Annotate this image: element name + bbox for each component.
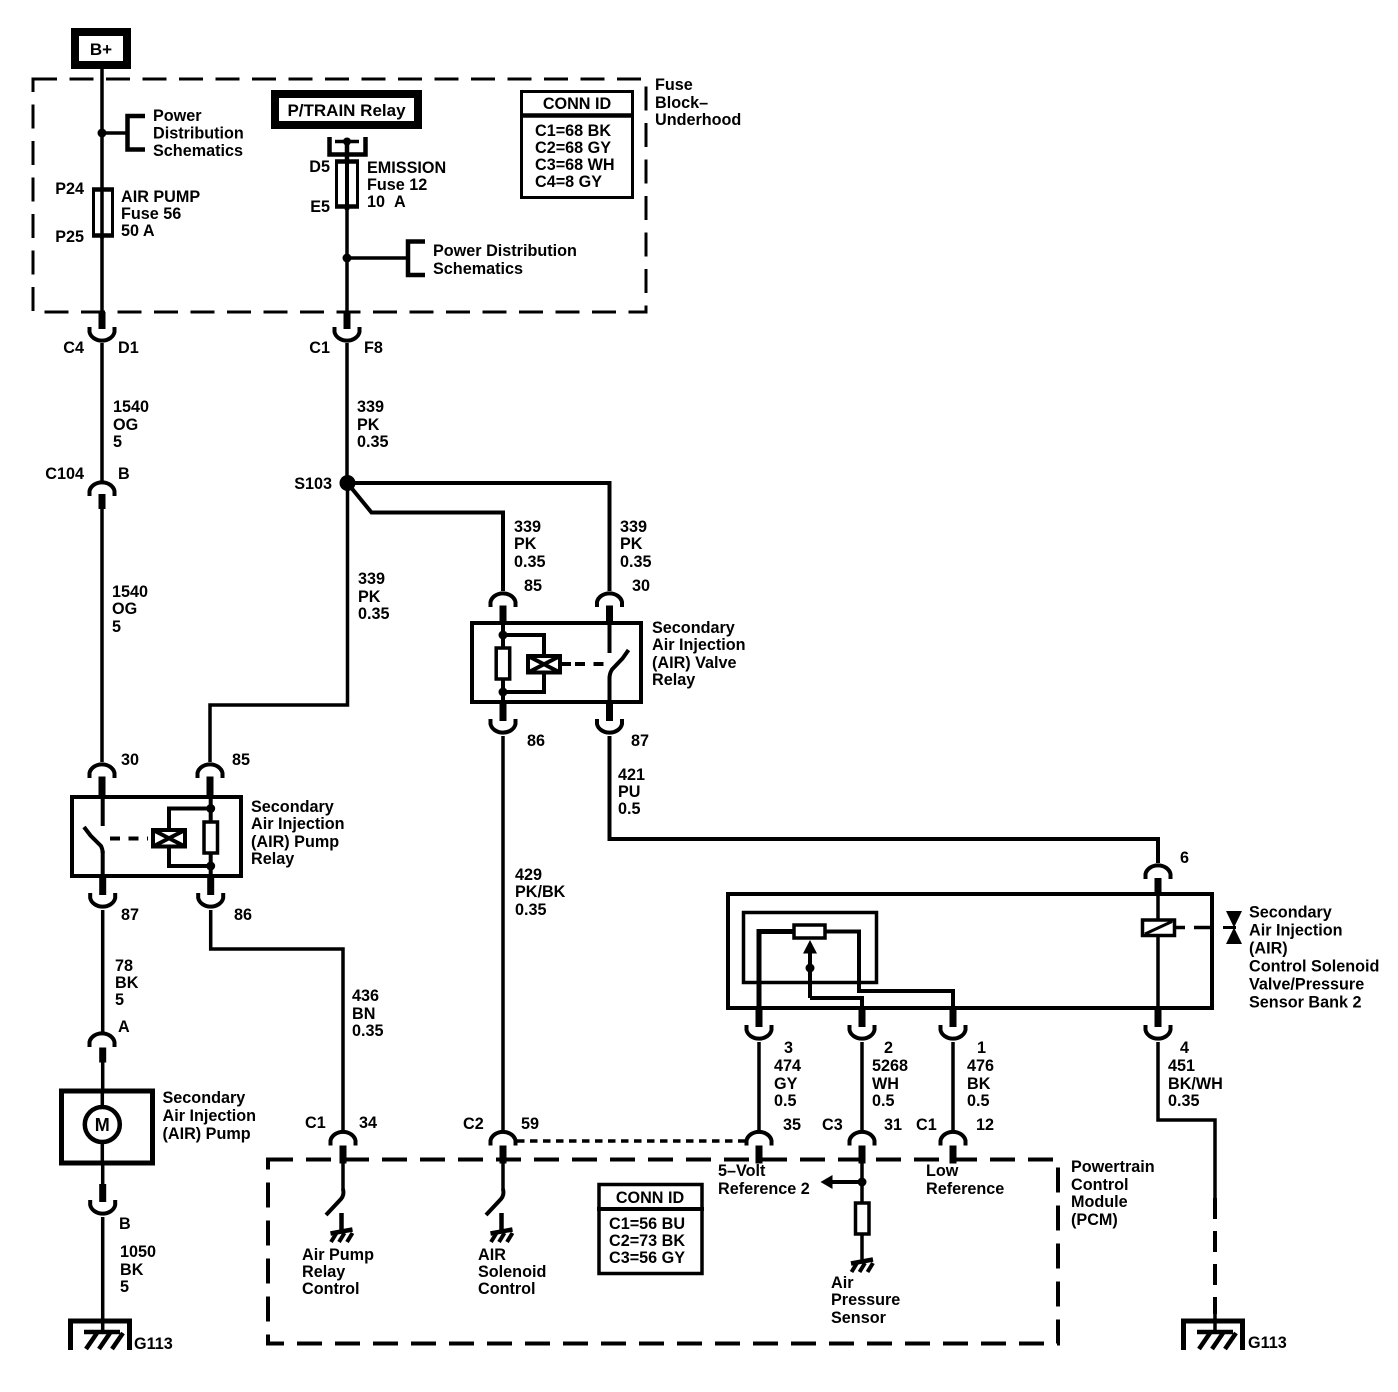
svg-text:PK: PK xyxy=(357,416,380,434)
connector pin 2 stub xyxy=(859,1009,866,1027)
svg-text:BN: BN xyxy=(352,1005,375,1023)
wire S103 diagonal branch to valve relay 85 xyxy=(349,485,503,591)
svg-text:(AIR) Valve: (AIR) Valve xyxy=(652,654,737,672)
svg-text:476: 476 xyxy=(967,1057,994,1075)
svg-text:339: 339 xyxy=(620,518,647,536)
svg-text:5: 5 xyxy=(113,433,122,451)
svg-text:PK: PK xyxy=(620,535,643,553)
svg-text:BK: BK xyxy=(967,1075,991,1093)
svg-text:Air Injection: Air Injection xyxy=(1249,922,1343,940)
svg-text:C2: C2 xyxy=(463,1115,484,1133)
svg-text:1050: 1050 xyxy=(120,1243,156,1261)
svg-text:429: 429 xyxy=(515,866,542,884)
svg-text:Relay: Relay xyxy=(652,671,695,689)
connector valve relay pin 86 stub xyxy=(500,703,507,721)
PCM dashed box xyxy=(268,1160,1058,1344)
svg-text:WH: WH xyxy=(872,1075,899,1093)
svg-text:87: 87 xyxy=(121,906,139,924)
connector PCM pin 31 xyxy=(850,1132,875,1146)
svg-text:30: 30 xyxy=(632,577,650,595)
air pressure sensor feed wire xyxy=(860,1160,864,1203)
solenoid feed wire from pin 6 xyxy=(1156,892,1160,921)
connector PCM pin 59 xyxy=(491,1132,516,1146)
pump relay coil bottom wire xyxy=(209,853,213,878)
svg-text:Sensor: Sensor xyxy=(831,1309,887,1327)
svg-text:(AIR): (AIR) xyxy=(1249,940,1288,958)
wire label 339 PK 0.35 right branch xyxy=(620,518,652,571)
svg-text:5: 5 xyxy=(115,991,124,1009)
wire 474 GY pin 3 to PCM 35 xyxy=(757,1042,761,1130)
connector C1 F8 xyxy=(335,327,360,341)
connector valve relay pin 86 xyxy=(491,719,516,733)
junction node power distribution tap xyxy=(98,129,107,138)
label Secondary Air Injection AIR Pump xyxy=(163,1089,257,1143)
svg-text:Power: Power xyxy=(153,107,202,125)
svg-text:34: 34 xyxy=(359,1114,377,1132)
svg-text:B: B xyxy=(119,1215,131,1233)
valve relay wire solenoid top loop xyxy=(503,635,544,655)
wire 436 BN pin 86 to PCM 34 xyxy=(211,910,343,1130)
svg-text:59: 59 xyxy=(521,1115,539,1133)
svg-text:C1: C1 xyxy=(916,1116,937,1134)
svg-text:0.35: 0.35 xyxy=(514,553,546,571)
svg-text:474: 474 xyxy=(774,1057,801,1075)
wire label 474 GY 0.5 xyxy=(774,1057,801,1110)
connector valve relay pin 87 stub xyxy=(606,703,613,721)
connector pump relay pin 30 xyxy=(90,764,115,778)
svg-text:339: 339 xyxy=(357,398,384,416)
AIR solenoid control driver wire xyxy=(501,1160,505,1190)
wire stub into ground G113 right xyxy=(1213,1310,1217,1332)
svg-text:Air Injection: Air Injection xyxy=(251,815,345,833)
connector valve relay pin 85 xyxy=(491,593,516,607)
connector PCM pin 12 stub xyxy=(950,1146,957,1164)
svg-text:CONN ID: CONN ID xyxy=(616,1189,685,1207)
svg-text:C3=56 GY: C3=56 GY xyxy=(609,1249,685,1267)
connector C4 D1 xyxy=(90,327,115,341)
wire label 339 PK 0.35 feed xyxy=(357,398,389,451)
svg-text:Valve/Pressure: Valve/Pressure xyxy=(1249,976,1364,994)
svg-text:5–Volt: 5–Volt xyxy=(718,1162,766,1180)
svg-text:5268: 5268 xyxy=(872,1057,908,1075)
svg-text:OG: OG xyxy=(112,600,137,618)
label Secondary Air Injection AIR Control Solenoid Valve Pressure Sensor Bank 2 xyxy=(1249,904,1379,1012)
wire 421 PU pin 87 to solenoid pin 6 xyxy=(610,736,1159,863)
connector B stub xyxy=(99,1184,106,1202)
svg-text:P25: P25 xyxy=(55,228,84,246)
wire 1540 OG C4 to C104 xyxy=(100,343,104,481)
wire S103 branch right to valve relay 30 xyxy=(347,483,610,591)
valve relay coil bottom wire xyxy=(501,679,505,704)
valve relay switch fixed contact from pin 30 xyxy=(608,621,612,653)
wire 1540 OG C104 to pump relay 30 xyxy=(100,507,104,762)
svg-text:PK/BK: PK/BK xyxy=(515,883,566,901)
junction node coil bottom valve relay xyxy=(499,688,508,697)
ground comb air pump relay control xyxy=(331,1230,353,1243)
svg-text:Relay: Relay xyxy=(302,1263,345,1281)
component box AIR control solenoid valve pressure sensor bank 2 xyxy=(728,894,1212,1008)
svg-text:87: 87 xyxy=(631,732,649,750)
svg-text:5: 5 xyxy=(112,618,121,636)
label Fuse Block-Underhood xyxy=(655,76,741,129)
svg-text:451: 451 xyxy=(1168,1057,1195,1075)
svg-text:Control: Control xyxy=(478,1280,536,1298)
wire label 78 BK 5 xyxy=(115,957,139,1009)
svg-text:A: A xyxy=(118,1018,130,1036)
wire label 476 BK 0.5 xyxy=(967,1057,994,1110)
svg-text:35: 35 xyxy=(783,1116,801,1134)
svg-text:0.5: 0.5 xyxy=(967,1092,990,1110)
svg-text:E5: E5 xyxy=(310,198,330,216)
svg-text:Solenoid: Solenoid xyxy=(478,1263,546,1281)
connector PCM pin 35 stub xyxy=(756,1146,763,1164)
pressure sensor potentiometer resistor xyxy=(794,925,825,938)
connector PCM pin 31 stub xyxy=(859,1146,866,1164)
svg-text:EMISSION: EMISSION xyxy=(367,159,446,177)
wire tap to power distribution bracket xyxy=(102,131,127,135)
svg-text:Reference 2: Reference 2 xyxy=(718,1180,810,1198)
svg-text:C1: C1 xyxy=(305,1114,326,1132)
connector valve relay pin 85 stub xyxy=(500,606,507,623)
connector pump relay pin 86 xyxy=(198,893,223,907)
svg-text:PK: PK xyxy=(514,535,537,553)
label AIR Solenoid Control xyxy=(478,1246,546,1298)
fuse AIR PUMP Fuse 56 50 A xyxy=(92,188,114,239)
svg-text:G113: G113 xyxy=(134,1335,173,1353)
svg-text:D5: D5 xyxy=(309,158,330,176)
wire 5268 WH pin 2 to PCM 31 xyxy=(860,1042,864,1130)
connector valve relay pin 30 xyxy=(597,593,622,607)
svg-text:10 A: 10 A xyxy=(367,193,406,211)
svg-text:0.35: 0.35 xyxy=(357,433,389,451)
wire P/TRAIN relay to EMISSION fuse xyxy=(345,141,350,162)
label Secondary Air Injection AIR Valve Relay xyxy=(652,619,746,689)
solenoid wire to pin 4 xyxy=(1156,936,1160,1011)
svg-text:86: 86 xyxy=(234,906,252,924)
wire EMISSION fuse to connector C1 xyxy=(345,206,349,314)
valve relay coil xyxy=(496,648,510,679)
connector pin 2 xyxy=(850,1025,875,1039)
svg-text:Secondary: Secondary xyxy=(251,798,334,816)
wiper wire to pin 2 xyxy=(810,998,862,1010)
svg-text:Relay: Relay xyxy=(251,850,294,868)
off-page bracket power distribution schematics xyxy=(128,116,146,150)
svg-text:C1=68 BK: C1=68 BK xyxy=(535,122,611,140)
svg-text:Module: Module xyxy=(1071,1193,1128,1211)
svg-text:86: 86 xyxy=(527,732,545,750)
svg-text:C104: C104 xyxy=(45,465,84,483)
svg-text:C1: C1 xyxy=(309,339,330,357)
svg-text:BK: BK xyxy=(120,1261,144,1279)
5-volt reference arrow xyxy=(821,1175,863,1189)
connector PCM pin 34 stub xyxy=(340,1146,347,1164)
connector A air pump xyxy=(90,1033,115,1047)
solenoid actuation dash to box edge xyxy=(1194,926,1212,930)
valve relay switch blade xyxy=(610,650,629,679)
svg-text:Sensor Bank 2: Sensor Bank 2 xyxy=(1249,994,1361,1012)
valve relay solenoid right stub xyxy=(562,662,571,666)
svg-text:0.35: 0.35 xyxy=(515,901,547,919)
svg-text:3: 3 xyxy=(784,1039,793,1057)
wire label 339 PK 0.35 mid branch xyxy=(514,518,546,571)
dotted link 59 to 35 xyxy=(517,1139,750,1143)
connector pump relay pin 87 xyxy=(90,893,115,907)
AIR control solenoid coil xyxy=(1143,920,1175,936)
connector pin 4 stub xyxy=(1155,1009,1162,1027)
ground comb air pressure sensor xyxy=(851,1260,873,1273)
label Power Distribution Schematics xyxy=(153,107,244,160)
svg-text:0.35: 0.35 xyxy=(620,553,652,571)
connector PCM pin 12 xyxy=(941,1132,966,1146)
wire label 1540 OG 5 xyxy=(113,398,149,451)
label Low Reference xyxy=(926,1162,1004,1198)
svg-text:Secondary: Secondary xyxy=(163,1089,246,1107)
off-page bracket power distribution schematics 2 xyxy=(408,242,425,276)
svg-text:B+: B+ xyxy=(90,40,112,59)
svg-text:Low: Low xyxy=(926,1162,959,1180)
junction node coil top valve relay xyxy=(499,631,508,640)
wire 476 BK pin 1 to PCM 12 xyxy=(951,1042,955,1130)
svg-text:C3: C3 xyxy=(822,1116,843,1134)
connector pin 4 xyxy=(1146,1025,1171,1039)
dashed wire to ground G113 right xyxy=(1213,1198,1217,1314)
connector pump relay pin 85 xyxy=(198,764,223,778)
svg-text:Control: Control xyxy=(1071,1176,1129,1194)
svg-text:0.35: 0.35 xyxy=(358,605,390,623)
P/TRAIN relay socket symbol xyxy=(330,137,366,155)
wire 429 PK/BK pin 86 to PCM 59 xyxy=(501,736,505,1130)
svg-text:Powertrain: Powertrain xyxy=(1071,1158,1155,1176)
svg-text:(PCM): (PCM) xyxy=(1071,1211,1118,1229)
air pressure sensor ground wire xyxy=(860,1234,864,1261)
svg-text:C4: C4 xyxy=(63,339,84,357)
air valve symbol xyxy=(1223,911,1242,944)
svg-text:339: 339 xyxy=(514,518,541,536)
connector pump relay pin 30 stub xyxy=(99,777,106,796)
battery positive symbol B+ xyxy=(75,32,127,65)
connector A stub xyxy=(99,1048,106,1063)
air pump relay control ground stub xyxy=(339,1213,344,1231)
connector PCM pin 59 stub xyxy=(500,1146,507,1164)
motor secondary AIR pump xyxy=(62,1091,153,1163)
svg-text:GY: GY xyxy=(774,1075,798,1093)
label Power Distribution Schematics 2 xyxy=(433,242,577,278)
svg-text:F8: F8 xyxy=(364,339,383,357)
valve relay wire solenoid bottom loop xyxy=(503,674,544,693)
air pump relay control switch blade xyxy=(326,1189,343,1215)
svg-text:0.35: 0.35 xyxy=(1168,1092,1200,1110)
svg-text:Reference: Reference xyxy=(926,1180,1004,1198)
svg-text:Control Solenoid: Control Solenoid xyxy=(1249,958,1379,976)
pump relay switch fixed contact from pin 30 xyxy=(101,795,105,826)
potentiometer right lead to pin 1 xyxy=(827,932,954,1011)
wire label 429 PK/BK 0.35 xyxy=(515,866,566,919)
connector PCM pin 34 xyxy=(331,1132,356,1146)
label Secondary Air Injection AIR Pump Relay xyxy=(251,798,345,868)
relay box P/TRAIN Relay xyxy=(275,94,418,125)
wire 451 BK/WH pin 4 to ground xyxy=(1158,1042,1215,1198)
connector C1 F8 male stub xyxy=(344,312,351,329)
pump relay switch blade xyxy=(84,827,103,853)
svg-text:Pressure: Pressure xyxy=(831,1291,900,1309)
svg-text:421: 421 xyxy=(618,766,645,784)
AIR solenoid control switch blade xyxy=(486,1189,503,1215)
wire fuse 56 to connector C4 xyxy=(100,235,104,314)
svg-text:12: 12 xyxy=(976,1116,994,1134)
svg-text:S103: S103 xyxy=(294,475,332,493)
svg-text:Fuse 12: Fuse 12 xyxy=(367,176,427,194)
fuse EMISSION Fuse 12 10 A xyxy=(335,160,359,210)
valve relay switch to pin 87 wire xyxy=(608,677,612,704)
wire B+ feed down to AIR PUMP fuse xyxy=(100,69,104,190)
pump relay coil feed from pin 85 xyxy=(209,795,213,821)
splice S103 xyxy=(340,475,356,491)
connector pump relay pin 87 stub xyxy=(99,877,106,895)
label Air Pressure Sensor xyxy=(831,1274,900,1327)
svg-text:(AIR) Pump: (AIR) Pump xyxy=(163,1125,251,1143)
air pressure sensor resistor xyxy=(856,1203,870,1234)
wire A to motor xyxy=(101,1058,105,1091)
connector valve relay pin 87 xyxy=(597,719,622,733)
air pump relay control driver wire xyxy=(341,1160,345,1190)
connector pin 1 xyxy=(941,1025,966,1039)
valve relay coil feed from pin 85 xyxy=(501,621,505,647)
svg-text:5: 5 xyxy=(120,1278,129,1296)
svg-text:Control: Control xyxy=(302,1280,360,1298)
svg-text:M: M xyxy=(95,1115,110,1135)
connector pin 1 stub xyxy=(950,1009,957,1027)
svg-text:436: 436 xyxy=(352,987,379,1005)
svg-text:0.5: 0.5 xyxy=(774,1092,797,1110)
connector C4 D1 male stub xyxy=(99,312,106,329)
svg-text:78: 78 xyxy=(115,957,133,975)
label Powertrain Control Module PCM xyxy=(1071,1158,1155,1229)
pump relay dashed actuation link xyxy=(110,837,148,841)
relay box secondary AIR pump relay xyxy=(72,797,241,876)
svg-text:CONN ID: CONN ID xyxy=(543,95,612,113)
svg-text:Schematics: Schematics xyxy=(153,142,243,160)
svg-text:Air Injection: Air Injection xyxy=(163,1107,257,1125)
svg-text:31: 31 xyxy=(884,1116,902,1134)
pump relay coil xyxy=(204,822,218,853)
svg-text:G113: G113 xyxy=(1248,1334,1287,1352)
wire label 339 PK 0.35 down branch xyxy=(358,570,390,623)
junction node coil bottom pump relay xyxy=(206,862,215,871)
svg-text:Secondary: Secondary xyxy=(1249,904,1332,922)
pressure sensor inner box xyxy=(744,913,877,983)
svg-text:Schematics: Schematics xyxy=(433,260,523,278)
valve relay dashed actuation link xyxy=(575,662,604,666)
svg-text:4: 4 xyxy=(1180,1039,1189,1057)
connector C104 B male stub xyxy=(99,494,106,509)
junction node power distribution tap 2 xyxy=(343,254,352,263)
svg-text:BK: BK xyxy=(115,974,139,992)
AIR solenoid control ground stub xyxy=(499,1213,504,1231)
svg-text:Air: Air xyxy=(831,1274,854,1292)
label AIR PUMP Fuse 56 50 A xyxy=(121,188,200,240)
label EMISSION Fuse 12 10 A xyxy=(367,159,446,211)
connector pin 6 stub xyxy=(1155,878,1162,894)
pump relay wire solenoid bottom loop xyxy=(169,848,211,867)
ground G113 right xyxy=(1184,1321,1243,1350)
junction node coil top pump relay xyxy=(206,804,215,813)
wire 78 BK pin 87 to pump A xyxy=(101,910,105,1033)
ground comb AIR solenoid control xyxy=(491,1230,513,1243)
connector solenoid assembly pin 6 xyxy=(1146,865,1171,879)
svg-text:(AIR) Pump: (AIR) Pump xyxy=(251,833,339,851)
svg-text:Fuse 56: Fuse 56 xyxy=(121,205,181,223)
svg-text:PU: PU xyxy=(618,783,641,801)
connector table CONN ID PCM xyxy=(597,1185,704,1274)
svg-text:1: 1 xyxy=(977,1039,986,1057)
pump relay wire solenoid top loop xyxy=(169,809,211,830)
wire label 1540 OG 5 second xyxy=(112,583,148,636)
svg-text:0.5: 0.5 xyxy=(872,1092,895,1110)
connector pin 3 xyxy=(747,1025,772,1039)
svg-text:C1=56 BU: C1=56 BU xyxy=(609,1215,685,1233)
svg-text:Power Distribution: Power Distribution xyxy=(433,242,577,260)
svg-text:0.5: 0.5 xyxy=(618,800,641,818)
wire S103 down branch to pump relay 85 xyxy=(210,483,348,762)
junction node wiper xyxy=(806,964,815,973)
svg-text:0.35: 0.35 xyxy=(352,1022,384,1040)
svg-text:Fuse: Fuse xyxy=(655,76,693,94)
svg-text:2: 2 xyxy=(884,1039,893,1057)
svg-text:Distribution: Distribution xyxy=(153,125,244,143)
svg-text:30: 30 xyxy=(121,751,139,769)
svg-text:Block–: Block– xyxy=(655,94,708,112)
wire label 5268 WH 0.5 xyxy=(872,1057,908,1110)
pump relay solenoid valve element xyxy=(153,830,185,847)
wire motor to connector B xyxy=(101,1163,105,1187)
relay box secondary AIR valve relay xyxy=(472,623,641,702)
svg-text:1540: 1540 xyxy=(112,583,148,601)
connector C104 B xyxy=(90,482,115,496)
svg-text:85: 85 xyxy=(232,751,250,769)
svg-text:339: 339 xyxy=(358,570,385,588)
connector pump relay pin 85 stub xyxy=(207,777,214,796)
svg-text:BK/WH: BK/WH xyxy=(1168,1075,1223,1093)
wire label 436 BN 0.35 xyxy=(352,987,384,1040)
connector pin 3 stub xyxy=(756,1009,763,1027)
pump relay switch to pin 87 wire xyxy=(101,851,105,878)
connector B motor ground lead xyxy=(90,1200,115,1214)
svg-text:AIR: AIR xyxy=(478,1246,506,1264)
svg-text:Underhood: Underhood xyxy=(655,111,741,129)
fuse block underhood dashed box xyxy=(33,79,646,312)
wire label 421 PU 0.5 xyxy=(618,766,645,818)
svg-text:C3=68 WH: C3=68 WH xyxy=(535,156,615,174)
svg-text:C2=68 GY: C2=68 GY xyxy=(535,139,611,157)
svg-text:D1: D1 xyxy=(118,339,139,357)
svg-text:85: 85 xyxy=(524,577,542,595)
junction node sensor tap xyxy=(858,1178,867,1187)
svg-text:AIR PUMP: AIR PUMP xyxy=(121,188,200,206)
svg-text:P/TRAIN Relay: P/TRAIN Relay xyxy=(287,101,406,120)
potentiometer left lead to pin 3 xyxy=(759,932,793,1011)
svg-text:Air Pump: Air Pump xyxy=(302,1246,374,1264)
svg-text:50 A: 50 A xyxy=(121,222,155,240)
connector table CONN ID fuse block xyxy=(521,92,633,198)
svg-text:1540: 1540 xyxy=(113,398,149,416)
svg-text:P24: P24 xyxy=(55,180,84,198)
svg-text:6: 6 xyxy=(1180,849,1189,867)
svg-text:C2=73 BK: C2=73 BK xyxy=(609,1232,685,1250)
svg-text:B: B xyxy=(118,465,130,483)
connector PCM pin 35 xyxy=(747,1132,772,1146)
ground G113 left xyxy=(71,1321,130,1350)
svg-text:OG: OG xyxy=(113,416,138,434)
